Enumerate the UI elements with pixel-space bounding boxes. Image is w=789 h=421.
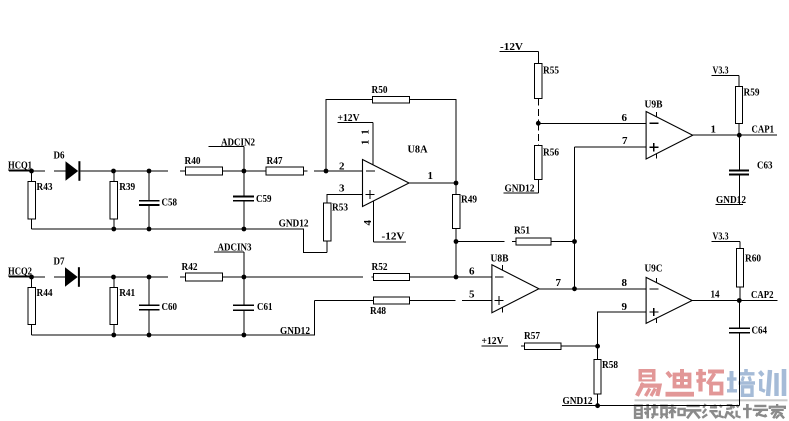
junction — [242, 275, 247, 280]
svg-text:1: 1 — [428, 170, 434, 182]
svg-text:U9B: U9B — [645, 99, 664, 111]
svg-text:1: 1 — [711, 124, 717, 136]
capacitor C60 — [139, 277, 178, 335]
svg-text:1: 1 — [360, 129, 372, 135]
capacitor C61 — [233, 277, 273, 335]
junction — [111, 169, 116, 174]
junction — [454, 275, 459, 280]
wire — [9, 276, 65, 278]
power -12V of U8A pin4 — [373, 201, 406, 242]
resistor R52 — [372, 261, 410, 281]
op-amp U8A — [363, 144, 428, 207]
svg-text:R59: R59 — [744, 87, 760, 99]
tian — [685, 406, 702, 418]
svg-text:R39: R39 — [119, 181, 135, 193]
junction — [572, 239, 577, 244]
power V3.3 bottom — [712, 231, 740, 243]
she — [635, 404, 651, 418]
junction — [595, 344, 600, 349]
ground GND12 under C63 — [715, 194, 746, 206]
char yi (易) pink — [637, 369, 660, 396]
resistor R57 — [524, 330, 561, 350]
node HCQ1 — [8, 160, 33, 172]
ground GND12 under R56 — [504, 183, 539, 195]
node ADCIN3 — [214, 242, 252, 278]
svg-text:CAP1: CAP1 — [752, 124, 775, 136]
wire — [45, 170, 363, 172]
resistor R55 — [535, 63, 560, 123]
wire U8A-out to U8B pin6 — [455, 242, 457, 278]
ji — [736, 404, 751, 418]
svg-text:C64: C64 — [752, 325, 768, 337]
capacitor C59 — [233, 171, 272, 229]
power -12V top — [499, 41, 538, 63]
svg-text:4: 4 — [362, 220, 374, 226]
svg-text:7: 7 — [556, 277, 562, 289]
watermark logo — [635, 369, 788, 418]
capacitor C63 — [729, 135, 773, 204]
resistor R47 — [266, 155, 304, 175]
junction — [147, 169, 152, 174]
svg-text:R60: R60 — [745, 253, 761, 265]
capacitor C58 — [139, 171, 178, 229]
resistor R44 — [28, 277, 53, 335]
resistor R53 — [324, 202, 349, 253]
junction — [147, 333, 152, 338]
power +12V R57 row — [481, 335, 597, 347]
svg-text:C59: C59 — [256, 193, 272, 205]
wire U9B output / node CAP1 — [693, 124, 777, 136]
he — [668, 405, 685, 419]
svg-text:R41: R41 — [119, 287, 135, 299]
svg-text:R50: R50 — [372, 84, 388, 96]
svg-text:6: 6 — [469, 266, 475, 278]
svg-text:1: 1 — [360, 140, 372, 146]
wire pin3 — [327, 195, 362, 204]
junction — [147, 227, 152, 232]
svg-text:C60: C60 — [162, 301, 178, 313]
char di (迪) pink — [666, 369, 695, 397]
wire R51 row — [456, 241, 575, 243]
capacitor C64 — [729, 301, 767, 406]
resistor R59 — [735, 75, 760, 135]
junction — [454, 239, 459, 244]
svg-text:R42: R42 — [182, 261, 198, 273]
char xun (训) blue — [760, 369, 785, 396]
svg-text:2: 2 — [339, 161, 345, 173]
op-amp U9B — [645, 99, 693, 160]
wire — [45, 276, 492, 278]
svg-text:U8B: U8B — [491, 253, 510, 265]
ground GND12 rail right — [562, 395, 739, 407]
svg-text:8: 8 — [622, 277, 628, 289]
resistor R39 — [110, 171, 135, 229]
svg-text:R44: R44 — [37, 287, 53, 299]
power V3.3 top — [712, 65, 739, 77]
svg-text:R58: R58 — [602, 359, 618, 371]
wire U9C output / node CAP2 — [692, 289, 777, 301]
svg-text:14: 14 — [711, 289, 720, 301]
svg-text:U9C: U9C — [645, 263, 663, 275]
power +12V — [337, 112, 373, 165]
op-amp U9C — [645, 263, 693, 324]
svg-text:3: 3 — [339, 183, 345, 195]
wire pin5 — [315, 300, 492, 302]
ground GND12 stage2 — [280, 325, 310, 337]
svg-text:R55: R55 — [543, 65, 559, 77]
svg-text:V3.3: V3.3 — [713, 65, 729, 77]
junction — [324, 169, 329, 174]
wire U8A output — [409, 182, 456, 184]
wire net pin7 vertical — [574, 147, 576, 289]
svg-text:D7: D7 — [54, 256, 65, 268]
svg-text:C58: C58 — [162, 197, 178, 209]
resistor R50 — [372, 84, 410, 103]
junction — [111, 275, 116, 280]
svg-text:+12V: +12V — [482, 335, 504, 347]
op-amp U8B — [491, 253, 539, 313]
svg-text:U8A: U8A — [408, 144, 428, 156]
svg-text:R49: R49 — [461, 194, 477, 206]
wire — [9, 170, 66, 172]
watermark underline bar — [635, 399, 788, 401]
diode D7 — [54, 256, 80, 287]
junction — [242, 169, 247, 174]
wire pin7 U9B — [575, 146, 647, 148]
svg-text:CAP2: CAP2 — [751, 289, 774, 301]
svg-text:R43: R43 — [37, 181, 53, 193]
junction — [595, 403, 600, 408]
jia — [770, 404, 785, 418]
svg-text:C63: C63 — [757, 160, 773, 172]
she2 — [720, 405, 735, 418]
xian — [702, 404, 718, 418]
resistor R49 — [452, 183, 477, 242]
resistor R43 — [28, 171, 53, 229]
junction — [242, 227, 247, 232]
pin 11 of U8A — [360, 129, 372, 145]
svg-text:V3.3: V3.3 — [713, 231, 729, 243]
resistor R42 — [182, 261, 223, 281]
zhuan — [753, 406, 768, 417]
wire pin9 — [598, 312, 647, 346]
junction — [111, 227, 116, 232]
resistor R41 — [110, 277, 135, 335]
junction — [242, 333, 247, 338]
resistor R60 — [736, 242, 761, 301]
junction — [536, 121, 541, 126]
svg-text:9: 9 — [622, 301, 628, 313]
junction — [111, 333, 116, 338]
svg-text:-12V: -12V — [382, 231, 405, 243]
wire U8B output — [539, 288, 646, 290]
resistor R51 — [514, 225, 551, 246]
pin — [651, 404, 668, 418]
svg-text:6: 6 — [622, 112, 628, 124]
node HCQ2 — [8, 266, 33, 278]
svg-text:7: 7 — [622, 135, 628, 147]
svg-text:R48: R48 — [370, 305, 386, 317]
junction — [29, 275, 34, 280]
svg-text:R53: R53 — [332, 202, 348, 214]
small grey slogan glyphs — [635, 404, 785, 418]
char pei (培) blue — [727, 369, 755, 395]
junction — [147, 275, 152, 280]
svg-text:R47: R47 — [267, 155, 283, 167]
resistor R58 — [594, 346, 618, 406]
wire ground rail stage1 — [32, 229, 328, 253]
svg-text:R57: R57 — [524, 330, 540, 342]
junction — [454, 181, 459, 186]
diode D6 — [54, 150, 81, 181]
wire ground rail stage2 — [32, 301, 315, 336]
junction — [737, 133, 742, 138]
wire pin6 U9B — [538, 122, 646, 124]
node ADCIN2 — [209, 137, 256, 172]
svg-text:R56: R56 — [543, 147, 559, 159]
resistor R56 — [535, 123, 560, 193]
resistor R48 — [370, 297, 410, 317]
junction — [29, 169, 34, 174]
svg-text:R52: R52 — [372, 261, 388, 273]
svg-text:GND12: GND12 — [279, 218, 309, 230]
char tuo (拓) pink — [696, 369, 724, 394]
junction — [572, 286, 577, 291]
svg-text:D6: D6 — [54, 150, 65, 162]
svg-text:5: 5 — [469, 289, 475, 301]
svg-text:C61: C61 — [257, 301, 273, 313]
ground GND12 stage1 — [279, 218, 309, 230]
wire feedback loop U8A — [326, 100, 456, 184]
svg-text:R51: R51 — [514, 225, 530, 237]
resistor R40 — [185, 155, 223, 175]
svg-text:R40: R40 — [185, 155, 201, 167]
junction — [737, 298, 742, 303]
